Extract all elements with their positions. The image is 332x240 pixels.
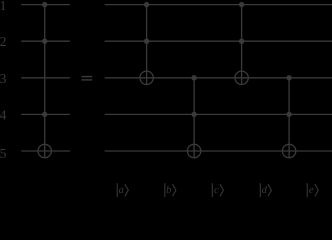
control dot (column 3, wire 2) xyxy=(239,39,244,44)
svg-text:1: 1 xyxy=(0,0,6,13)
svg-text:4: 4 xyxy=(0,107,7,122)
wire (column 2 vertical) xyxy=(193,78,195,158)
wire (column 4 vertical) xyxy=(288,78,290,158)
control dot (column 2, wire 4) xyxy=(191,112,196,117)
svg-text:c: c xyxy=(214,185,219,196)
svg-text:b: b xyxy=(166,185,171,196)
wire 3 (right circuit) xyxy=(105,77,332,79)
state label |e> xyxy=(307,183,318,197)
target XOR (left gate, wire 5) xyxy=(38,144,51,157)
control dot (column 1, wire 2) xyxy=(144,39,149,44)
wire 5 (right circuit) xyxy=(105,150,332,152)
wire (column 3 vertical) xyxy=(241,5,243,85)
svg-text:3: 3 xyxy=(0,71,7,86)
control dot (left gate, wire 1) xyxy=(42,2,47,7)
wire (left gate vertical) xyxy=(44,5,46,158)
control dot (column 2, wire 3) xyxy=(191,75,196,80)
wire 5 (left circuit) xyxy=(21,150,70,152)
wire 1 (right circuit) xyxy=(105,4,332,6)
state label |a> xyxy=(117,183,128,197)
wire 2 (left circuit) xyxy=(21,40,70,42)
wire 2 (right circuit) xyxy=(105,40,332,42)
target XOR (column 2, wire 5) xyxy=(187,144,200,157)
wire 1 (left circuit) xyxy=(21,4,70,6)
target XOR (column 3, wire 3) xyxy=(235,71,248,84)
control dot (column 3, wire 1) xyxy=(239,2,244,7)
wire 3 (left circuit) xyxy=(21,77,70,79)
target XOR (column 4, wire 5) xyxy=(282,144,295,157)
control dot (left gate, wire 4) xyxy=(42,112,47,117)
state label |c> xyxy=(212,183,223,197)
svg-text:d: d xyxy=(262,185,268,196)
control dot (column 1, wire 1) xyxy=(144,2,149,7)
wire 4 (right circuit) xyxy=(105,113,332,115)
target XOR (column 1, wire 3) xyxy=(140,71,153,84)
control dot (column 4, wire 3) xyxy=(286,75,291,80)
svg-text:5: 5 xyxy=(0,146,7,161)
state label |b> xyxy=(165,183,176,197)
wire 4 (left circuit) xyxy=(21,113,70,115)
control dot (left gate, wire 2) xyxy=(42,39,47,44)
equals sign xyxy=(82,76,93,81)
wire (column 1 vertical) xyxy=(146,5,148,85)
control dot (column 4, wire 4) xyxy=(286,112,291,117)
svg-text:a: a xyxy=(119,185,124,196)
svg-text:e: e xyxy=(309,185,314,196)
state label |d> xyxy=(260,183,271,197)
svg-text:2: 2 xyxy=(0,34,7,49)
